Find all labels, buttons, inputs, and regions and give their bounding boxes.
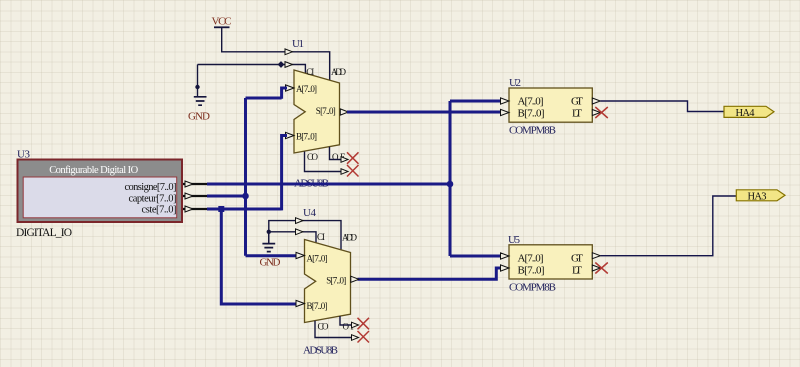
U1 pin B arrow: [286, 132, 295, 138]
ground GND2: [260, 232, 281, 269]
U3 pin capteur stub: [183, 195, 208, 197]
svg-text:CO: CO: [307, 152, 319, 162]
svg-text:CI: CI: [306, 67, 314, 77]
arrow on U4 ADD wire: [296, 218, 304, 224]
U4 pin CO: [315, 321, 352, 338]
svg-text:HA4: HA4: [736, 108, 756, 119]
no-ERC X on U2 LT: [595, 107, 608, 118]
svg-text:cste[7..0]: cste[7..0]: [142, 204, 177, 215]
wire GND2 to U4 CI: [269, 232, 316, 244]
svg-text:U4: U4: [303, 207, 317, 219]
power VCC: [212, 16, 232, 28]
U2 pin B arrow: [501, 109, 510, 115]
svg-text:LT: LT: [572, 108, 582, 120]
svg-text:ADSU8B: ADSU8B: [303, 345, 338, 357]
bus U4.S to U5.B: [358, 268, 502, 279]
U3 pin cste stub: [183, 208, 208, 210]
svg-text:CI: CI: [317, 232, 325, 242]
svg-text:ADD: ADD: [342, 232, 358, 242]
svg-text:HA3: HA3: [748, 191, 767, 202]
svg-text:COMPM8B: COMPM8B: [509, 281, 556, 293]
svg-text:GT: GT: [571, 96, 583, 108]
svg-text:A[7..0]: A[7..0]: [307, 253, 328, 263]
junction capteur: [242, 193, 249, 200]
svg-text:GT: GT: [571, 252, 583, 264]
U1 pin A arrow: [286, 85, 295, 91]
wire VCC to U1 ADD: [222, 28, 330, 81]
svg-text:B[7..0]: B[7..0]: [296, 132, 317, 142]
wire U5.GT to port HA3: [600, 196, 736, 256]
wire GND2 to U4 ADD: [269, 221, 341, 250]
block U3 DIGITAL_IO: [16, 149, 182, 240]
bus cste to U1.B and U4.B: [207, 136, 297, 305]
arrow on CI wire: [285, 62, 293, 68]
svg-text:B[7..0]: B[7..0]: [307, 301, 328, 311]
svg-text:capteur[7..0]: capteur[7..0]: [129, 193, 177, 204]
bus consigne to U2.A / U5.A: [207, 101, 501, 256]
svg-text:B[7..0]: B[7..0]: [518, 108, 545, 120]
U1 pin S output arrow: [340, 109, 348, 115]
svg-text:GND: GND: [188, 111, 210, 123]
arrow on U4 CI wire: [296, 229, 304, 235]
no-ERC X on U4 OF: [358, 318, 370, 330]
U5 pin GT output arrow: [592, 253, 600, 259]
wire U2.GT to port HA4: [600, 101, 724, 112]
svg-text:U1: U1: [292, 38, 304, 50]
U5 pin A arrow: [501, 253, 510, 259]
svg-text:A[7..0]: A[7..0]: [518, 96, 544, 108]
bus U1.S to U2.B: [347, 111, 501, 114]
comparator U2: [509, 77, 592, 137]
U4 pin S output arrow: [351, 276, 359, 282]
junction consigne bus: [447, 181, 454, 188]
port HA3: [736, 190, 785, 203]
svg-text:DIGITAL_IO: DIGITAL_IO: [16, 227, 72, 239]
comparator U5: [508, 234, 592, 293]
U5 pin B arrow: [501, 265, 510, 271]
svg-text:consigne[7..0]: consigne[7..0]: [125, 182, 177, 193]
junction cste: [218, 206, 224, 212]
svg-text:ADD: ADD: [331, 67, 347, 77]
svg-text:U2: U2: [509, 77, 521, 89]
U2 pin A arrow: [501, 98, 510, 104]
svg-text:Configurable Digital IO: Configurable Digital IO: [49, 165, 138, 176]
svg-text:CO: CO: [318, 322, 330, 332]
node on CI wire: [278, 61, 285, 68]
node GND2: [267, 230, 271, 234]
no-ERC X on OF: [347, 152, 359, 164]
no-ERC X on U5 LT: [595, 263, 608, 274]
svg-text:LT: LT: [572, 264, 582, 276]
U1 pin OF: [330, 147, 342, 160]
U3 pin consigne stub: [183, 183, 208, 185]
no-ERC X on CO: [347, 165, 359, 177]
svg-text:GND: GND: [260, 257, 281, 269]
U4 pin A arrow: [296, 252, 305, 258]
U4 pin B arrow: [296, 300, 305, 306]
svg-text:A[7..0]: A[7..0]: [296, 84, 317, 94]
port HA4: [724, 106, 774, 119]
arrow on ADD wire: [285, 49, 293, 55]
svg-text:S[7..0]: S[7..0]: [316, 106, 336, 116]
node on GND1 stem: [195, 85, 199, 89]
no-ERC X on U4 CO: [358, 331, 370, 343]
svg-text:VCC: VCC: [212, 16, 232, 28]
wire GND1 to U1 CI: [198, 65, 306, 75]
adder U1 body: [292, 38, 347, 190]
ground GND1: [188, 65, 210, 123]
svg-text:COMPM8B: COMPM8B: [509, 125, 556, 137]
U5 pin LT output arrow: [592, 265, 600, 271]
U2 pin GT output arrow: [592, 98, 600, 104]
U1 pin CO: [305, 152, 342, 172]
U2 pin LT output arrow: [592, 110, 600, 116]
svg-text:B[7..0]: B[7..0]: [518, 264, 545, 276]
svg-text:A[7..0]: A[7..0]: [518, 252, 544, 264]
U4 pin OF: [340, 316, 352, 325]
svg-text:S[7..0]: S[7..0]: [326, 276, 346, 286]
bus capteur to U1.A and U4.A: [207, 88, 297, 256]
adder U4 body: [303, 207, 358, 357]
